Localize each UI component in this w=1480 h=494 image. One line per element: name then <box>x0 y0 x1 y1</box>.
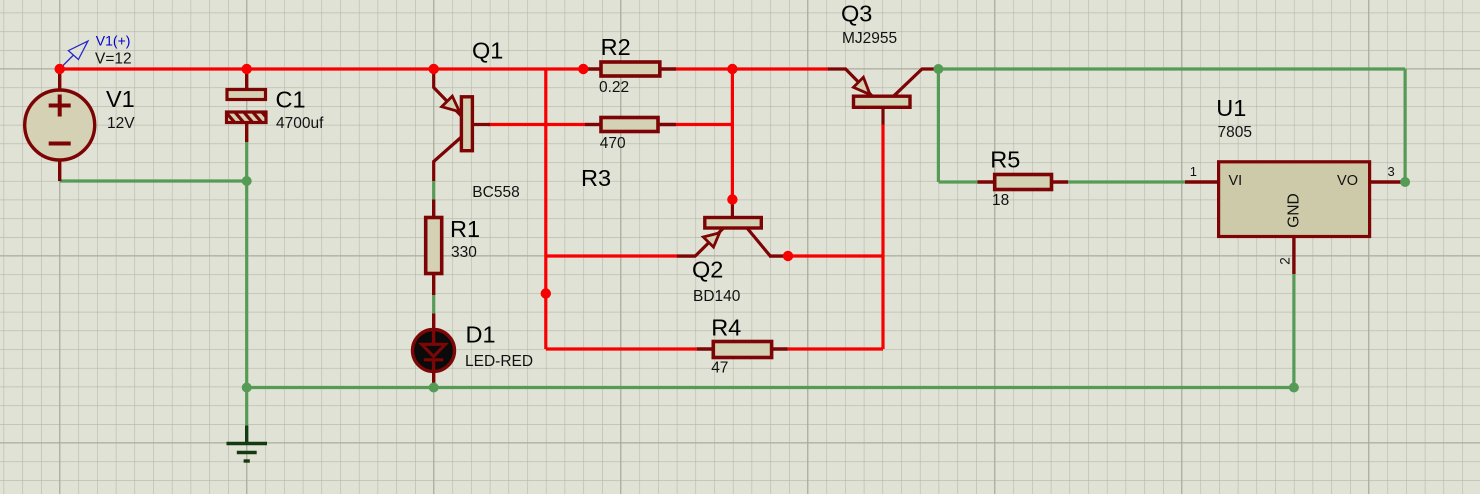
wire green to ground <box>245 388 248 426</box>
svg-text:Q3: Q3 <box>841 1 872 27</box>
svg-text:D1: D1 <box>466 322 496 348</box>
svg-text:R4: R4 <box>711 315 741 341</box>
junction green V1/C1 bottom <box>242 176 252 186</box>
wire R4 row left <box>546 347 697 350</box>
regulator U1 (7805) <box>1185 162 1405 274</box>
LED D1 <box>413 314 455 388</box>
svg-text:R1: R1 <box>450 216 480 242</box>
svg-text:C1: C1 <box>276 87 306 113</box>
resistor R3 (470) <box>585 118 676 132</box>
svg-text:MJ2955: MJ2955 <box>842 30 897 47</box>
wire green U1 pin2 down <box>1292 274 1295 388</box>
svg-text:3: 3 <box>1388 164 1395 179</box>
svg-text:Q2: Q2 <box>692 257 723 283</box>
wire vertical x=883 Q3 base down <box>881 125 884 350</box>
junction node top rail at V1 <box>55 64 65 74</box>
svg-text:47: 47 <box>711 360 728 377</box>
svg-text:BD140: BD140 <box>693 288 741 305</box>
transistor Q3 (MJ2955) <box>828 69 938 125</box>
junction node before R2 <box>578 64 588 74</box>
wire green R1 to D1 <box>432 295 435 314</box>
svg-text:7805: 7805 <box>1218 124 1252 141</box>
wire R4 row right <box>788 347 883 350</box>
wire Q2 emitter row <box>546 254 678 257</box>
junction green U1 pin2 bottom <box>1289 383 1299 393</box>
wire green bottom rail <box>247 386 1294 389</box>
ground <box>227 426 268 462</box>
svg-text:18: 18 <box>992 192 1009 209</box>
wire Q1 base to R3 <box>488 123 585 126</box>
wire green C1 bottom vertical <box>245 142 248 388</box>
svg-text:2: 2 <box>1278 257 1293 265</box>
wire green Q1 collector to R1 <box>432 181 435 200</box>
svg-text:VI: VI <box>1229 173 1243 189</box>
wire green to R5 left <box>938 180 977 183</box>
transistor Q2 (BD140) <box>677 200 787 257</box>
svg-text:R3: R3 <box>581 165 611 191</box>
wire Q2 collector row <box>786 254 883 257</box>
wire top rail right (R2 to Q3 emitter) <box>676 67 829 70</box>
wire green R5 to U1 pin1 <box>1068 180 1185 183</box>
wire green right vertical to pin3 <box>1403 69 1406 182</box>
svg-text:12V: 12V <box>107 115 135 132</box>
resistor R1 <box>426 200 442 296</box>
capacitor C1 <box>224 69 272 142</box>
transistor Q1 (BC558) <box>434 69 490 181</box>
junction node Q2 base <box>727 194 737 204</box>
svg-text:470: 470 <box>600 135 626 152</box>
svg-text:R2: R2 <box>601 34 631 60</box>
resistor R5 <box>978 175 1069 190</box>
svg-text:V=12: V=12 <box>95 50 132 67</box>
svg-text:GND: GND <box>1286 193 1303 227</box>
junction node Q2 collector <box>783 251 793 261</box>
svg-text:V1: V1 <box>106 86 135 112</box>
svg-text:VO: VO <box>1337 173 1358 189</box>
junction green U1 pin3 <box>1400 177 1410 187</box>
junction node on x=546 vertical <box>541 288 551 298</box>
resistor R4 <box>697 342 788 358</box>
svg-text:R5: R5 <box>990 147 1020 173</box>
svg-text:1: 1 <box>1190 164 1197 179</box>
wire top rail left (node V1+ to R2) <box>60 67 584 70</box>
svg-text:4700uf: 4700uf <box>276 115 324 132</box>
junction green bottom rail at D1 <box>429 383 439 393</box>
resistor R2 <box>583 62 676 76</box>
wire green top right rail <box>938 67 1405 70</box>
voltage probe V1(+) <box>62 41 88 66</box>
svg-text:U1: U1 <box>1216 95 1246 121</box>
wire vertical x=732 to Q2 base <box>731 69 734 200</box>
wire green V1 minus to C1 bottom <box>60 179 247 182</box>
junction node top rail at Q1 <box>429 64 439 74</box>
wire vertical drop at x=546 <box>544 69 547 349</box>
wire R3 to node x=732 <box>676 123 732 126</box>
junction green Q3 collector node <box>933 64 943 74</box>
junction green bottom rail at ground <box>242 383 252 393</box>
junction node after R2 <box>727 64 737 74</box>
junction node top rail at C1 <box>242 64 252 74</box>
svg-text:BC558: BC558 <box>472 184 519 201</box>
svg-text:V1(+): V1(+) <box>96 33 131 49</box>
svg-text:0.22: 0.22 <box>599 79 629 96</box>
wire green vertical x=938 <box>937 69 940 182</box>
svg-text:LED-RED: LED-RED <box>465 353 533 370</box>
svg-text:330: 330 <box>451 244 477 261</box>
voltage source V1 <box>25 69 95 181</box>
svg-text:Q1: Q1 <box>472 38 503 64</box>
